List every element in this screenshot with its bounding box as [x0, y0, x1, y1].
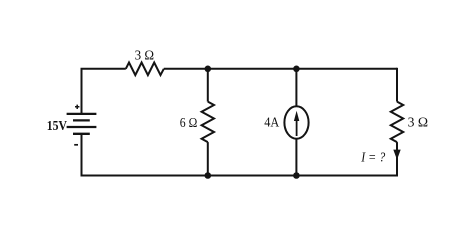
svg-text:3 Ω: 3 Ω: [408, 115, 429, 130]
svg-text:3 Ω: 3 Ω: [135, 48, 155, 63]
svg-text:I = ?: I = ?: [360, 151, 385, 166]
battery V1 long plate 2: [67, 126, 97, 128]
svg-text:15V: 15V: [47, 119, 67, 134]
battery minus terminal mark: [74, 144, 78, 146]
junction node D dot (bottom, I1 branch): [293, 172, 300, 179]
current direction arrowhead I (down) on right branch: [393, 150, 400, 160]
current source I1 arrow shaft: [296, 120, 298, 137]
resistor R1 3 ohm (top horizontal zigzag): [126, 63, 164, 76]
junction node B dot (top, I1 branch): [293, 66, 300, 73]
wire R2 branch lower (R2 down to bottom wire): [207, 142, 209, 175]
wire top-left segment (battery to R1): [82, 69, 126, 114]
battery V1 long plate 1 (positive): [67, 113, 97, 115]
wire I1 branch upper (node B down to current source): [295, 69, 297, 107]
wire R2 branch upper (node A down to R2): [207, 69, 209, 102]
wire right lower (R3 through current arrow to bottom-right corner): [396, 142, 398, 175]
current source I1 arrowhead (up): [294, 111, 299, 121]
wire right upper (top-right corner down to R3): [396, 68, 398, 102]
battery plus terminal mark: [75, 105, 79, 109]
resistor R2 6 ohm (vertical zigzag): [202, 102, 214, 143]
wire bottom (bottom-left corner to bottom-right corner): [82, 175, 398, 176]
resistor R3 3 ohm (right vertical zigzag): [391, 102, 403, 143]
battery V1 short plate 2 (negative): [73, 133, 90, 135]
junction node A dot (top, R2 branch): [205, 66, 212, 73]
junction node C dot (bottom, R2 branch): [205, 172, 212, 179]
wire I1 branch lower (current source down to bottom wire): [295, 139, 297, 176]
wire left lower (battery to bottom wire): [81, 134, 83, 176]
svg-text:4A: 4A: [264, 114, 279, 129]
current source I1 body (ellipse): [284, 106, 308, 138]
wire top middle (R1 to node A to node B to top-right corner): [164, 68, 397, 70]
svg-text:6 Ω: 6 Ω: [180, 115, 198, 130]
battery V1 short plate 1: [73, 119, 90, 121]
